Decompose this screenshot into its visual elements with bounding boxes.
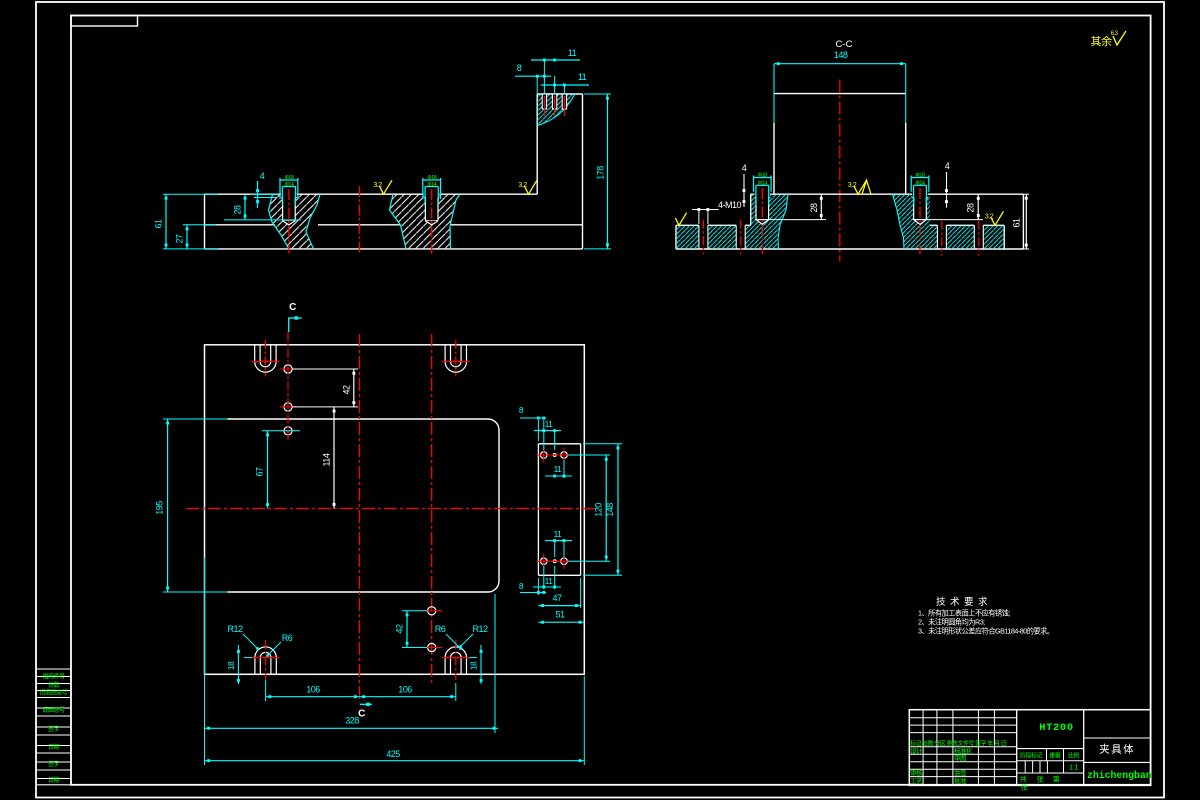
dim 11 (wall top first) <box>531 59 580 61</box>
svg-text:67: 67 <box>255 467 265 477</box>
svg-text:11: 11 <box>568 48 577 58</box>
dim 8 bottom <box>520 592 546 594</box>
dim 18 left <box>237 645 239 684</box>
svg-text:27: 27 <box>175 234 185 244</box>
svg-text:148: 148 <box>605 503 615 517</box>
svg-text:114: 114 <box>322 453 332 466</box>
front view plate mid line <box>205 224 276 226</box>
svg-text:195: 195 <box>155 501 165 515</box>
svg-text:批准: 批准 <box>954 776 967 785</box>
front view centerline mid <box>359 186 361 255</box>
C-C left step riser <box>750 194 752 225</box>
dim 11 mid-bottom <box>545 540 572 542</box>
dim 195 <box>163 418 228 420</box>
front view wall right edge <box>582 94 584 249</box>
plan hole col-left 2 <box>284 403 292 411</box>
dim 8 top <box>520 417 546 419</box>
plan hole bottom y647 <box>428 643 436 651</box>
front view counterbore hole 1 <box>281 194 297 197</box>
C-C tower top edge <box>774 93 906 95</box>
C-C left step top edge <box>676 224 699 226</box>
plan strip hole pair 1 <box>540 452 547 459</box>
dim 106 left <box>265 680 267 701</box>
svg-text:28: 28 <box>966 203 976 213</box>
wall-top drill hole 2 <box>552 94 556 109</box>
svg-text:借用件号: 借用件号 <box>42 673 65 681</box>
C-C right boss hatch <box>893 194 931 249</box>
svg-text:51: 51 <box>555 610 565 620</box>
svg-text:HT200: HT200 <box>1039 722 1074 734</box>
svg-text:3.2: 3.2 <box>373 182 382 189</box>
svg-text:日期: 日期 <box>48 743 60 751</box>
plan bottom slot right <box>444 658 446 675</box>
dim 120 <box>568 454 610 456</box>
front view boss 1 local section <box>269 194 321 249</box>
C-C dim 61 right <box>1023 193 1029 195</box>
svg-text:R6: R6 <box>282 633 293 643</box>
plan hole bottom y610 <box>428 607 436 615</box>
svg-text:11: 11 <box>554 464 563 474</box>
C-C counterbore hole left <box>755 194 771 197</box>
svg-text:148: 148 <box>834 50 848 60</box>
svg-text:42: 42 <box>341 385 351 395</box>
svg-text:Φ14: Φ14 <box>758 181 767 187</box>
dim 148 plan <box>583 443 622 445</box>
C-C center line <box>839 80 841 262</box>
C-C right step top edge <box>930 224 937 226</box>
svg-text:11: 11 <box>545 419 554 429</box>
svg-text:4-M10: 4-M10 <box>718 200 742 210</box>
svg-text:C: C <box>289 302 296 313</box>
roughness symbol plate top left <box>380 180 393 194</box>
svg-text:R6: R6 <box>435 624 446 634</box>
title block small boxes <box>1024 761 1026 773</box>
svg-text:会签: 会签 <box>954 768 967 777</box>
svg-text:审核: 审核 <box>910 768 923 777</box>
svg-text:3.2: 3.2 <box>985 213 994 220</box>
svg-text:11: 11 <box>578 72 587 82</box>
svg-text:28: 28 <box>809 203 819 213</box>
dim 42 bottom <box>402 610 427 612</box>
plan view outer rect <box>205 345 585 675</box>
svg-text:C: C <box>358 709 365 720</box>
plan strip hole pair 2 <box>540 558 547 565</box>
dim 27 <box>183 224 216 226</box>
svg-text:Φ14: Φ14 <box>427 182 436 188</box>
svg-text:Φ18: Φ18 <box>915 173 924 179</box>
dim 42 top <box>292 368 358 370</box>
svg-text:第: 第 <box>1053 775 1060 784</box>
title block grid <box>909 710 1150 786</box>
svg-text:重量: 重量 <box>1049 752 1061 760</box>
svg-text:Φ18: Φ18 <box>284 175 293 181</box>
svg-text:11: 11 <box>545 576 554 586</box>
C-C left boss hatch <box>751 194 788 249</box>
svg-text:签字: 签字 <box>48 725 60 733</box>
section arrow C top <box>289 318 302 332</box>
C-C M10 hole 1 sides <box>698 225 700 249</box>
plan right strip <box>537 444 539 576</box>
C-C M10 hole 4 sides <box>973 225 975 249</box>
C-C base right edge <box>1022 194 1024 249</box>
dim 425 <box>583 676 585 765</box>
svg-text:工艺: 工艺 <box>910 777 923 785</box>
front view boss 2 local section <box>390 194 461 249</box>
C-C dim 4 right <box>946 172 948 208</box>
C-C base bottom edge <box>676 248 1023 250</box>
C-C base top edge <box>751 193 755 195</box>
dim 178 (wall height) <box>584 93 611 95</box>
svg-text:R12: R12 <box>472 624 488 634</box>
plan centerline col-left <box>287 332 289 441</box>
svg-text:标记 处数 分区 更改文件号 签字 年 月 日: 标记 处数 分区 更改文件号 签字 年 月 日 <box>910 740 1006 748</box>
svg-text:11: 11 <box>554 529 563 539</box>
svg-text:120: 120 <box>594 503 604 517</box>
svg-text:Φ14: Φ14 <box>284 182 293 188</box>
plan hole col-left 3 <box>284 427 292 435</box>
svg-text:6.3: 6.3 <box>1111 31 1119 37</box>
front view wall left edge <box>536 94 538 194</box>
svg-text:61: 61 <box>1012 218 1022 228</box>
svg-text:18: 18 <box>226 661 236 670</box>
wall-top local section hatch <box>537 94 575 126</box>
dim 11 bottom <box>533 586 561 588</box>
svg-text:C-C: C-C <box>836 39 853 50</box>
svg-text:Φ14: Φ14 <box>915 181 924 187</box>
left margin table <box>36 668 71 670</box>
svg-text:zhichengban: zhichengban <box>1087 770 1152 781</box>
plan centerline right col <box>431 334 433 686</box>
C-C dim 28 left <box>769 219 826 221</box>
svg-text:106: 106 <box>306 685 320 695</box>
svg-text:328: 328 <box>345 716 359 726</box>
svg-text:28: 28 <box>233 205 243 215</box>
plan bottom slot left <box>254 658 256 675</box>
title block material cell <box>1017 748 1084 750</box>
roughness symbol plate top right <box>525 180 538 194</box>
svg-text:技术要求: 技术要求 <box>936 596 992 608</box>
svg-text:设计: 设计 <box>910 746 923 755</box>
C-C tower right edge <box>905 123 907 194</box>
svg-text:61: 61 <box>154 219 164 229</box>
dim 67 <box>262 430 300 432</box>
svg-text:4: 4 <box>742 163 747 173</box>
svg-text:3.2: 3.2 <box>848 182 857 189</box>
C-C right strip hatch <box>930 225 937 249</box>
svg-text:425: 425 <box>386 749 400 759</box>
C-C roughness center <box>854 180 867 194</box>
svg-text:1、所有加工表面上不应有锈蚀;: 1、所有加工表面上不应有锈蚀; <box>918 609 1010 618</box>
front view counterbore hole 2 <box>424 194 440 197</box>
C-C dim 28 right <box>926 219 983 221</box>
front view plate left edge <box>204 194 206 249</box>
svg-text:底图总号: 底图总号 <box>42 706 65 714</box>
svg-text:4: 4 <box>945 161 950 171</box>
front view plate top line <box>205 193 282 195</box>
svg-text:签字: 签字 <box>48 760 60 768</box>
svg-text:106: 106 <box>398 685 412 695</box>
svg-text:比例: 比例 <box>1068 752 1080 760</box>
plan top slot left <box>254 345 256 362</box>
dim 51 <box>538 621 584 623</box>
svg-text:18: 18 <box>469 661 479 670</box>
C-C right notch edge <box>1003 225 1005 249</box>
svg-text:3、未注明形状公差应符合GB1184-80的要求。: 3、未注明形状公差应符合GB1184-80的要求。 <box>918 627 1054 636</box>
svg-text:178: 178 <box>596 166 606 180</box>
C-C dim 4 left <box>743 174 745 207</box>
front view wall top edge <box>537 93 582 95</box>
plan hole col-left 1 <box>284 365 292 373</box>
title block right cells <box>1084 737 1151 739</box>
svg-text:3.2: 3.2 <box>518 182 527 189</box>
dim 28 (hole depth) <box>224 219 301 221</box>
svg-text:4: 4 <box>260 171 265 181</box>
C-C base left edge <box>675 225 677 249</box>
svg-text:2、未注明圆角均为R3;: 2、未注明圆角均为R3; <box>918 618 985 627</box>
dim 61 (plate height) <box>163 193 219 195</box>
dim 18 right <box>480 645 482 684</box>
plan horizontal centerline <box>186 508 598 510</box>
dim 11 mid-top <box>545 475 572 477</box>
svg-text:8: 8 <box>517 63 522 73</box>
wall-top drill hole 1 <box>542 94 546 109</box>
front view plate bottom line <box>205 248 583 250</box>
svg-text:Φ18: Φ18 <box>427 175 436 181</box>
svg-text:审图: 审图 <box>954 753 966 762</box>
svg-text:R12: R12 <box>227 624 243 634</box>
dim 47 <box>580 578 582 608</box>
svg-text:张: 张 <box>1021 783 1028 792</box>
dim 8 (wall top) <box>515 75 551 77</box>
dim 148 (tower width) <box>774 63 906 65</box>
section arrow C bottom <box>360 703 372 705</box>
title block stage row <box>1017 760 1084 762</box>
top-left frame box <box>71 16 138 27</box>
svg-text:Φ18: Φ18 <box>758 173 767 179</box>
dim 4 (spot depth) <box>250 193 278 195</box>
svg-text:张: 张 <box>1037 775 1044 784</box>
svg-text:旧底图总号: 旧底图总号 <box>40 689 68 697</box>
svg-text:42: 42 <box>395 624 405 634</box>
C-C left strip hatch <box>676 225 699 249</box>
plan centerline C path <box>359 334 361 703</box>
C-C roughness right end <box>991 211 1004 225</box>
svg-text:份数: 份数 <box>48 681 60 689</box>
svg-text:1:1: 1:1 <box>1069 763 1078 772</box>
dim 11 (wall top second) <box>541 84 589 86</box>
C-C tower left edge <box>773 123 775 194</box>
plan platform rounded rect <box>228 419 500 592</box>
svg-text:其余: 其余 <box>1091 34 1112 48</box>
svg-text:日期: 日期 <box>48 776 60 784</box>
plan top slot right <box>444 345 446 362</box>
dim 328 <box>204 558 206 733</box>
dim 114 <box>333 407 335 509</box>
C-C roughness left end <box>675 213 686 226</box>
dim 11 top <box>534 430 561 432</box>
svg-text:夹具体: 夹具体 <box>1099 743 1135 756</box>
svg-text:共: 共 <box>1020 775 1027 784</box>
svg-text:47: 47 <box>552 593 562 603</box>
C-C M10 hole 3 sides <box>936 225 938 249</box>
svg-text:标准化: 标准化 <box>954 746 973 755</box>
wall-top drill hole 3 <box>562 94 566 109</box>
svg-text:阶段标记: 阶段标记 <box>1020 752 1043 760</box>
C-C M10 hole 2 sides <box>735 225 737 249</box>
C-C counterbore hole right <box>912 194 928 197</box>
